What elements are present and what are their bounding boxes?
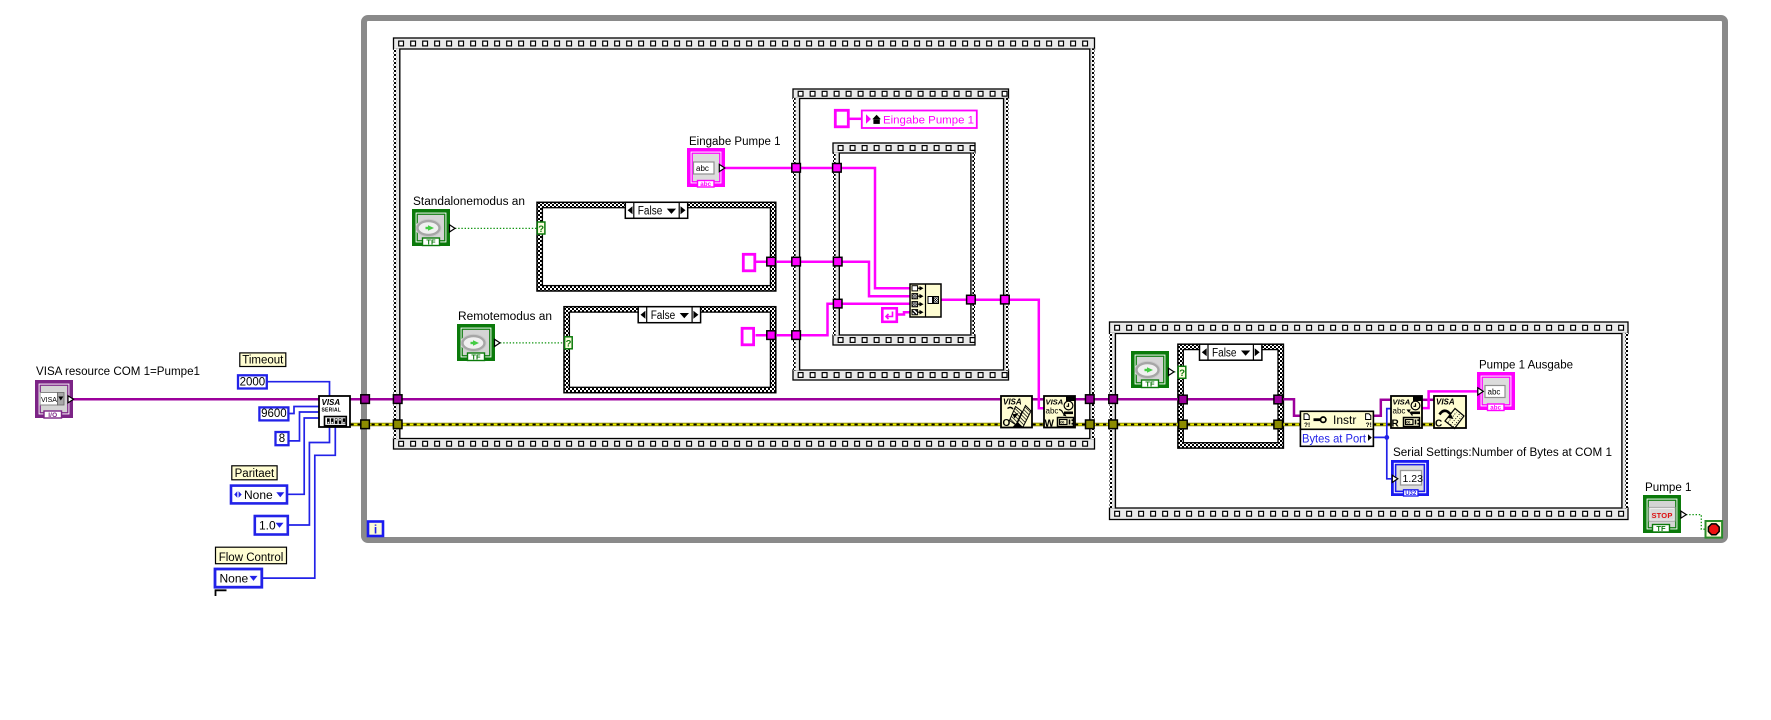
svg-text:Timeout: Timeout	[242, 355, 284, 367]
tunnel VISA resource into sequence 4	[1109, 395, 1118, 404]
end of line constant	[882, 308, 897, 322]
flat sequence 3 left border	[833, 153, 839, 336]
case structure 2	[564, 307, 776, 393]
svg-text:Pumpe 1: Pumpe 1	[1645, 482, 1692, 494]
label Pumpe 1 Ausgabe	[1479, 359, 1573, 371]
flat sequence 1 top border	[394, 38, 1095, 49]
svg-text:9600: 9600	[261, 408, 287, 420]
wire VISA Open to VISA Write	[1033, 398, 1045, 401]
svg-text:STOP: STOP	[1651, 511, 1672, 520]
empty string constant case 2	[742, 328, 754, 345]
tunnel string case 1 right	[767, 257, 776, 266]
flat sequence 2 top border	[793, 89, 1009, 99]
svg-text:TF: TF	[1656, 524, 1666, 533]
label Eingabe Pumpe 1	[689, 136, 781, 148]
tunnel VISA resource case 3 left	[1179, 395, 1188, 404]
svg-text:VISA: VISA	[41, 397, 57, 404]
svg-text:Bytes at Port: Bytes at Port	[1302, 431, 1367, 445]
svg-text:?!: ?!	[1304, 422, 1310, 429]
svg-text:False: False	[1212, 348, 1237, 360]
svg-text:?: ?	[538, 224, 544, 235]
flat sequence 2 bottom border	[793, 370, 1009, 380]
wire 8 to serial config	[289, 412, 320, 441]
svg-text:W: W	[1045, 419, 1055, 430]
constant 2000	[238, 375, 267, 388]
error wire VISA Read to VISA Close	[1422, 423, 1435, 427]
flat sequence 3 bottom border	[833, 335, 975, 345]
wire Paritaet None to serial config	[287, 418, 320, 494]
case 3 selector label False	[1200, 344, 1262, 360]
svg-text:1.23: 1.23	[1403, 473, 1424, 485]
svg-text:VISA: VISA	[322, 398, 341, 407]
wire 9600 to serial config	[288, 407, 320, 414]
stop bits 1.0 constant	[255, 516, 288, 535]
svg-text:Remotemodus an: Remotemodus an	[458, 311, 552, 323]
svg-text:Paritaet: Paritaet	[235, 468, 275, 480]
VISA Open function	[1001, 396, 1032, 429]
Paritaet None enum constant	[231, 486, 287, 504]
tunnel Eingabe into sequence 2	[792, 164, 801, 173]
flat sequence 2 left border	[793, 98, 800, 371]
svg-text:VISA: VISA	[1003, 398, 1022, 407]
svg-text:TF: TF	[426, 237, 436, 246]
label Remotemodus an	[458, 311, 552, 323]
svg-text:?!: ?!	[1366, 422, 1372, 429]
tunnel VISA resource on while loop	[361, 395, 370, 404]
constant 9600	[259, 407, 288, 420]
svg-text:Standalonemodus an: Standalonemodus an	[413, 196, 525, 208]
VISA configure serial port node	[319, 396, 350, 427]
tunnel concat out of sequence 3	[967, 295, 976, 304]
svg-text:VISA: VISA	[1393, 398, 1411, 407]
property node Bytes at Port	[1300, 411, 1373, 446]
flat sequence 4 bottom border	[1110, 508, 1629, 520]
VISA Close function	[1434, 396, 1466, 430]
svg-text:O: O	[1003, 418, 1011, 429]
junction Bytes at Port wire	[1384, 435, 1389, 440]
tunnel VISA resource on sequence 1	[393, 395, 402, 404]
constant 8	[276, 432, 289, 445]
label Paritaet	[232, 466, 277, 480]
svg-text:abc: abc	[1488, 388, 1501, 397]
VISA Write function	[1044, 396, 1075, 430]
wire EOL constant to concatenate	[898, 312, 911, 314]
wire 1.0 to serial config	[288, 427, 330, 525]
while loop border	[364, 18, 1725, 540]
svg-text:U32: U32	[1405, 491, 1417, 497]
wire Bytes at Port to VISA Read	[1374, 409, 1392, 438]
svg-text:VISA resource COM 1=Pumpe1: VISA resource COM 1=Pumpe1	[36, 366, 200, 378]
svg-text:I/O: I/O	[48, 412, 57, 419]
svg-text:None: None	[220, 571, 249, 585]
error wire VISA Write to property node	[1075, 423, 1301, 427]
wire Remotemodus to case 2	[500, 342, 565, 344]
tunnel error case 3 left	[1179, 420, 1188, 429]
svg-text:∞: ∞	[1060, 420, 1064, 426]
wire Bytes at Port to indicator	[1387, 437, 1393, 478]
case 2 selector terminal ?	[565, 337, 573, 350]
svg-text:Eingabe Pumpe 1: Eingabe Pumpe 1	[689, 136, 781, 148]
flat sequence 4 right border	[1622, 333, 1628, 509]
tunnel error into sequence 4	[1109, 420, 1118, 429]
case structure 1	[537, 202, 776, 291]
svg-text:abc: abc	[1046, 407, 1059, 416]
wire VISA Write to property node	[1075, 399, 1301, 416]
svg-text:?: ?	[566, 339, 572, 350]
wire property node to VISA Read	[1373, 400, 1392, 416]
svg-text:?: ?	[1179, 368, 1185, 379]
flat sequence 3 right border	[971, 153, 975, 336]
wire Timeout 2000 to serial config	[267, 382, 330, 397]
wire VISA Read to VISA Close	[1422, 399, 1435, 402]
Standalonemodus an boolean control	[412, 209, 455, 246]
case 3 selector terminal ?	[1178, 366, 1186, 379]
svg-text:8: 8	[279, 433, 285, 445]
VISA resource COM 1=Pumpe1 control	[35, 380, 74, 419]
svg-text:2000: 2000	[240, 376, 266, 388]
svg-text:Pumpe 1 Ausgabe: Pumpe 1 Ausgabe	[1479, 359, 1573, 371]
concatenate strings function	[910, 284, 941, 317]
error wire VISA Open to VISA Write	[1033, 423, 1045, 427]
svg-text:Instr: Instr	[1333, 413, 1356, 427]
wire VISA Read to Pumpe 1 Ausgabe	[1422, 391, 1478, 408]
tunnel case1 string into sequence 3	[833, 257, 842, 266]
wire case 2 constant to concatenate	[756, 304, 911, 336]
case structure 3	[1178, 344, 1284, 448]
wire VISA resource serial-out to VISA Open	[351, 398, 1002, 401]
tunnel case2 string into sequence 3	[833, 299, 842, 308]
tunnel VISA resource out of sequence 1	[1086, 395, 1095, 404]
case 1 selector terminal ?	[537, 222, 545, 235]
flat sequence 3 top border	[833, 143, 975, 153]
svg-text:SERIAL: SERIAL	[322, 408, 342, 414]
tunnel error on sequence 1	[393, 420, 402, 429]
wire Eingabe Pumpe 1 to concatenate	[725, 168, 911, 288]
svg-text:∞: ∞	[1406, 420, 1410, 426]
Flow Control None constant	[215, 569, 262, 587]
svg-text:VISA: VISA	[1046, 398, 1064, 407]
error wire property node to VISA Read	[1373, 423, 1392, 427]
flat sequence 4 top border	[1110, 322, 1629, 334]
svg-text:C: C	[1435, 419, 1442, 430]
svg-text:abc: abc	[1393, 407, 1406, 416]
svg-text:Flow Control: Flow Control	[219, 552, 284, 564]
label Standalonemodus an	[413, 196, 525, 208]
wire Standalonemodus to case 1	[455, 227, 538, 229]
label VISA resource COM 1=Pumpe1	[36, 366, 200, 378]
label Pumpe 1	[1645, 482, 1692, 494]
svg-text:i: i	[374, 523, 377, 537]
flat sequence 4 left border	[1110, 333, 1116, 509]
flat sequence 2 right border	[1004, 98, 1009, 371]
tunnel error on while loop	[361, 420, 370, 429]
svg-text:Serial Settings:Number of Byte: Serial Settings:Number of Bytes at COM 1	[1393, 447, 1612, 459]
svg-text:abc: abc	[700, 181, 711, 188]
tunnel case2 string into sequence 2	[792, 331, 801, 340]
label Timeout	[240, 353, 286, 367]
error wire serial config to VISA Open	[351, 423, 1002, 427]
svg-text:VISA: VISA	[1436, 398, 1455, 407]
wire Pumpe 1 stop to loop condition	[1686, 515, 1706, 530]
loop iteration terminal i	[368, 522, 383, 537]
case 2 selector label False	[638, 307, 700, 323]
flat sequence 1 bottom border	[394, 439, 1095, 450]
svg-text:R: R	[1392, 419, 1400, 430]
tunnel concat out of sequence 2	[1001, 295, 1010, 304]
partial box fragment	[216, 590, 227, 596]
VISA Read function	[1391, 396, 1422, 430]
tunnel case1 string into sequence 2	[792, 257, 801, 266]
flat sequence 1 right border	[1090, 49, 1095, 440]
tunnel Eingabe into sequence 3	[833, 164, 842, 173]
wire local variable link	[848, 118, 862, 121]
string terminal (square)	[835, 110, 848, 127]
svg-text:Eingabe Pumpe 1: Eingabe Pumpe 1	[883, 114, 974, 126]
label Flow Control	[216, 547, 287, 564]
svg-text:abc: abc	[696, 164, 709, 173]
label Serial Settings	[1393, 447, 1612, 459]
Remotemodus an boolean control	[457, 324, 500, 361]
Pumpe 1 stop button	[1643, 495, 1686, 533]
wire case 1 constant to concatenate	[756, 262, 911, 296]
svg-text:False: False	[638, 206, 663, 218]
Serial Settings numeric indicator U32	[1391, 460, 1429, 497]
loop condition terminal (stop)	[1706, 521, 1723, 538]
empty string constant case 1	[743, 254, 755, 270]
boolean control frame 4	[1131, 351, 1174, 388]
svg-text:False: False	[651, 310, 676, 322]
wire concatenate to VISA Write	[941, 300, 1045, 409]
svg-text:1.0: 1.0	[259, 518, 276, 532]
svg-text:None: None	[244, 488, 273, 502]
tunnel error out of sequence 1	[1086, 420, 1095, 429]
svg-text:TF: TF	[1145, 379, 1155, 388]
svg-text:abc: abc	[1490, 404, 1501, 411]
wire boolean to case 3	[1174, 371, 1178, 373]
tunnel VISA resource case 3 right	[1274, 395, 1283, 404]
tunnel error case 3 right	[1274, 420, 1283, 429]
local variable Eingabe Pumpe 1	[862, 111, 977, 129]
svg-text:TF: TF	[471, 352, 481, 361]
Pumpe 1 Ausgabe string indicator	[1477, 372, 1515, 411]
tunnel string case 2 right	[767, 331, 776, 340]
flat sequence 1 left border	[394, 49, 400, 440]
wire VISA resource to serial config	[73, 398, 320, 401]
wire Flow Control None to serial config	[262, 427, 336, 578]
case 1 selector label False	[625, 202, 687, 218]
Eingabe Pumpe 1 string control	[687, 148, 725, 188]
